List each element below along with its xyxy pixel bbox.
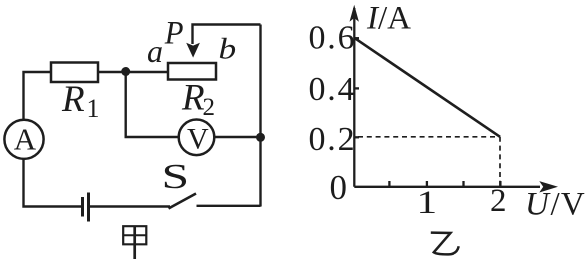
svg-text:/A: /A — [378, 1, 411, 37]
svg-text:U: U — [525, 187, 551, 223]
svg-text:R: R — [181, 78, 205, 119]
svg-text:a: a — [147, 33, 163, 69]
svg-text:0.6: 0.6 — [309, 20, 357, 57]
svg-text:0.4: 0.4 — [309, 71, 357, 108]
svg-text:R: R — [61, 79, 85, 120]
svg-text:P: P — [164, 15, 184, 51]
svg-text:1: 1 — [417, 185, 438, 221]
svg-text:b: b — [219, 33, 237, 66]
svg-text:A: A — [14, 122, 37, 157]
svg-text:1: 1 — [87, 94, 100, 123]
svg-text:2: 2 — [203, 94, 216, 121]
svg-text:2: 2 — [490, 183, 507, 219]
svg-text:/V: /V — [551, 187, 586, 223]
svg-text:0: 0 — [330, 168, 348, 207]
svg-text:V: V — [187, 123, 209, 156]
svg-text:S: S — [162, 158, 190, 196]
svg-text:0.2: 0.2 — [309, 121, 357, 158]
